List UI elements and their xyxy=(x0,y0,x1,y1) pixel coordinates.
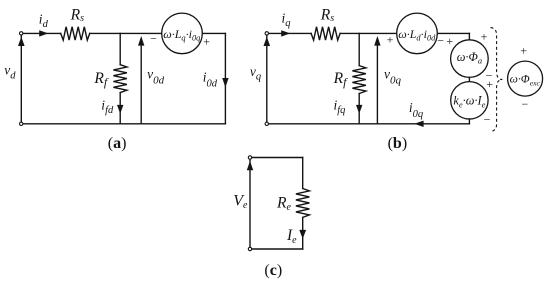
wire top (c) xyxy=(252,157,303,159)
wire top left (b) xyxy=(269,32,311,34)
wire left side (a) xyxy=(20,36,22,122)
svg-text:+: + xyxy=(481,29,488,43)
source circle wPhi_a (b) xyxy=(451,40,489,78)
node terminal bottom-left (c) xyxy=(248,247,251,250)
wire bottom (b) xyxy=(269,123,470,125)
source circle wPhi_exc (b) xyxy=(508,61,543,96)
wire right branch top (b) xyxy=(468,33,470,39)
arrow i_q (b) xyxy=(281,30,290,36)
svg-text:+: + xyxy=(446,34,453,48)
resistor Re (c) xyxy=(296,189,310,218)
wire right top (c) xyxy=(302,158,304,189)
wire left side (c) xyxy=(249,160,251,247)
wire Rf to bottom (b) xyxy=(358,94,360,124)
node terminal top-left (c) xyxy=(248,156,251,159)
arrow v_d up (a) xyxy=(18,37,25,46)
source circle ke.w.Ie (b) xyxy=(451,82,488,119)
wire bottom (c) xyxy=(252,248,303,250)
wire top right of source (b) xyxy=(437,32,469,34)
svg-text:(c): (c) xyxy=(264,262,282,279)
arrow i_0q left (b) xyxy=(414,121,423,127)
source circle wLd.i0d (b) xyxy=(397,13,438,54)
dashed brace (b) xyxy=(491,28,503,132)
svg-text:−: − xyxy=(437,34,444,48)
node terminal bottom-left (b) xyxy=(265,122,268,125)
junction Rf branch (a) xyxy=(119,33,121,64)
wire top mid (a) xyxy=(90,32,162,34)
node terminal bottom-left (a) xyxy=(20,122,23,125)
arrow i_fd down (a) xyxy=(117,105,123,114)
node terminal top-left (b) xyxy=(265,32,268,35)
source circle wLq.i0q (a) xyxy=(162,13,203,54)
svg-text:(a): (a) xyxy=(108,135,127,152)
arrow I_e down (c) xyxy=(299,230,306,239)
arrow line v_0q (b) xyxy=(376,46,378,123)
arrow i_0d down (a) xyxy=(222,78,228,87)
wire top left (a) xyxy=(23,32,61,34)
wire bottom (a) xyxy=(23,123,225,125)
svg-text:+: + xyxy=(387,33,394,47)
svg-text:+: + xyxy=(203,35,210,49)
wire source to bottom (b) xyxy=(468,119,470,124)
wire Rf to bottom (a) xyxy=(119,93,121,124)
wire between sources (b) xyxy=(468,77,470,81)
junction Rf branch (b) xyxy=(358,33,360,65)
wire right bottom (c) xyxy=(302,217,304,249)
svg-text:(b): (b) xyxy=(388,135,408,152)
wire top mid (b) xyxy=(340,32,397,34)
arrow line v_0d (a) xyxy=(140,46,142,123)
wire top right of source (a) xyxy=(202,32,225,34)
resistor Rf (a) xyxy=(113,65,127,93)
svg-text:ke·ω·Ie: ke·ω·Ie xyxy=(453,94,485,110)
arrow v_q up (b) xyxy=(264,37,271,46)
arrow i_d (a) xyxy=(39,30,48,36)
resistor Rs (b) xyxy=(311,27,340,40)
svg-text:+: + xyxy=(486,77,493,91)
svg-text:−: − xyxy=(150,32,157,46)
svg-text:−: − xyxy=(484,113,491,127)
resistor Rf (b) xyxy=(352,66,366,94)
wire left side (b) xyxy=(266,36,268,122)
svg-text:−: − xyxy=(522,97,529,111)
arrow i_fq down (b) xyxy=(356,105,362,114)
resistor Rs (a) xyxy=(61,27,90,40)
wire right side (a) xyxy=(224,33,226,123)
arrow V_e up (c) xyxy=(247,161,253,170)
node terminal top-left (a) xyxy=(20,32,23,35)
svg-text:+: + xyxy=(520,43,527,57)
